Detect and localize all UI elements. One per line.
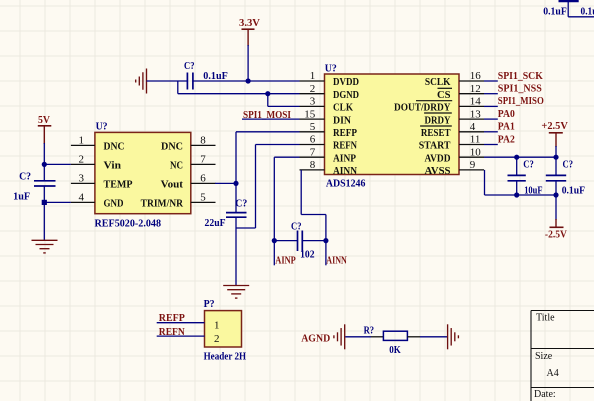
wire REFP to header pin 1 [157,322,205,324]
wire AINN vertical [301,170,326,265]
wire to DGND pin 2 [178,93,300,95]
pin 6 (REFN) of U? ADS1246 [300,134,358,152]
svg-text:R?: R? [364,324,375,336]
wire AINP vertical [274,157,299,265]
capacitor C? 22uF [226,183,247,285]
svg-text:2: 2 [214,333,220,345]
designator R? [364,324,375,336]
voltage reference U? REF5020 body [95,132,191,213]
value 102 [300,249,315,261]
wire SPI1_MOSI to DIN pin 15 [242,118,300,120]
junction Vout/REFP/22uF [233,181,238,186]
designator U? (REF5020) [96,121,108,133]
wire 5V to Vin [43,143,45,181]
overbar of DRDY in DOUT/DRDY [416,100,452,102]
svg-text:8: 8 [200,135,206,147]
svg-text:0K: 0K [389,344,401,356]
net label SPI1_MOSI [243,109,291,121]
svg-text:A4: A4 [547,368,559,379]
wire AVDD rail [484,156,556,158]
net label SPI1_MISO [498,95,544,107]
power port +2.5V [541,120,568,147]
op-amp/ADC U? ADS1246 body [325,74,460,175]
wire 1uF to ground [43,186,45,240]
pin 5 (TRIM/NR) of U? REF5020 [141,192,216,210]
svg-text:SPI1_MISO: SPI1_MISO [498,95,544,107]
wire pin to net PA0 [484,118,498,120]
value 1uF [13,191,30,203]
svg-text:AVDD: AVDD [425,152,451,164]
wire from top-right capacitor [568,2,594,17]
pin 16 (SCLK) of U? ADS1246 [425,70,484,88]
svg-text:6: 6 [310,134,316,146]
designator U? (ADS1246) [325,63,337,75]
designator C? (0.1uF right) [563,159,574,171]
svg-text:TRIM/NR: TRIM/NR [141,198,184,210]
ground (analog earth, left of C 0.1uF) [136,69,147,94]
ground (below 22uF) [223,286,249,299]
svg-text:C?: C? [291,221,302,233]
svg-text:+2.5V: +2.5V [541,120,568,132]
pin 1 (DVDD) of U? ADS1246 [300,70,360,88]
overbar of CS [438,87,453,89]
svg-text:CLK: CLK [333,102,353,114]
net label AINN [326,255,347,267]
capacitor C? 0.1uF (right) [546,157,566,195]
svg-text:7: 7 [310,146,316,158]
title block text Date [534,389,556,400]
junction 5V/Vin [42,162,47,167]
designator C? (10uF) [523,159,534,171]
title block text Title [536,313,555,324]
capacitor C? 1uF [34,181,56,186]
svg-text:Date:: Date: [534,389,556,400]
svg-text:RESET: RESET [421,127,451,139]
svg-text:11: 11 [470,134,481,146]
wire +2.5V to rail [555,146,557,157]
wire AVSS bottom rail [485,194,557,196]
part name REF5020-2.048 [95,217,162,229]
net label REFP (header) [159,312,185,324]
title block text Size [535,351,553,362]
wire REFN to header pin 2 [157,335,205,337]
junction 10uF/rail [514,192,519,197]
value 0.1uF (right) [562,184,586,196]
junction 0.1uF/rail [553,192,558,197]
junction at 3.3V/DVDD [246,78,251,83]
ground (below 1uF) [32,240,58,253]
svg-text:0.1uF: 0.1uF [203,70,228,82]
svg-text:AGND: AGND [301,333,330,345]
svg-text:DGND: DGND [333,89,359,101]
junction GND pin 4 (square) [42,200,47,205]
svg-text:10: 10 [470,146,482,158]
svg-text:2: 2 [310,83,316,95]
value label 0.1 (clipped at right edge) [581,6,594,18]
svg-text:C?: C? [184,60,195,72]
svg-text:1: 1 [310,70,316,82]
wire REFN to 22uF bottom [236,145,300,229]
svg-text:5V: 5V [38,114,50,126]
svg-text:U?: U? [96,121,108,133]
svg-text:ADS1246: ADS1246 [326,177,366,189]
svg-text:14: 14 [470,96,482,108]
junction AINN/102 [323,238,328,243]
svg-text:1: 1 [79,135,85,147]
svg-text:102: 102 [300,249,315,261]
wire pin to net SPI1_MISO [484,105,498,107]
junction on DGND wire [265,91,270,96]
svg-text:C?: C? [523,159,534,171]
junction AVDD/0.1uF [553,155,558,160]
pin 5 (REFP) of U? ADS1246 [300,121,358,139]
pin 8 (AINN) of U? ADS1246 [300,159,358,177]
svg-text:REF5020-2.048: REF5020-2.048 [95,217,162,229]
designator C? (top capacitor) [184,60,195,72]
wire DGND to CLK [268,94,300,107]
wire GND branch [44,201,71,203]
resistor R? body [383,331,407,340]
capacitor C? 0.1uF (3.3V decoupling) [187,73,193,90]
svg-text:SPI1_NSS: SPI1_NSS [498,83,542,95]
svg-text:13: 13 [470,108,482,120]
svg-text:AINN: AINN [333,165,357,177]
svg-text:PA1: PA1 [498,121,515,133]
power port 3.3V [239,17,260,46]
junction AINP/102 [272,238,277,243]
net label SPI1_SCK [498,70,543,82]
svg-text:DVDD: DVDD [333,76,359,88]
svg-text:Size: Size [535,351,553,362]
wire rail to -2.5V [555,195,557,220]
capacitor plate fragment (top right corner) [559,0,579,2]
wire Vin branch [44,163,71,165]
value 0K [389,344,401,356]
wire ground branch down [177,81,179,94]
pin 2 (DGND) of U? ADS1246 [300,83,360,101]
part name ADS1246 [326,177,366,189]
wire pin to net PA1 [484,131,498,133]
wire AVSS pin 9 down [484,170,486,195]
pin 10 (AVDD) of U? ADS1246 [425,146,485,164]
power port -2.5V [545,219,567,241]
svg-text:C?: C? [235,197,247,209]
wire pin to net PA2 [484,144,498,146]
net label PA1 [498,121,515,133]
svg-text:5: 5 [310,121,316,133]
svg-text:Vout: Vout [161,179,184,191]
svg-text:C?: C? [563,159,574,171]
svg-text:SCLK: SCLK [425,76,451,88]
svg-text:C?: C? [19,171,31,183]
pin 15 (DIN) of U? ADS1246 [300,108,352,126]
pin 1 of P? [214,319,220,331]
svg-text:DNC: DNC [161,141,183,153]
pin 2 (Vin) of U? REF5020 [71,154,121,172]
pin 7 (NC) of U? REF5020 [170,154,216,172]
wire pin to net SPI1_SCK [484,80,498,82]
overbar of DRDY [424,112,452,114]
pin 4 (GND) of U? REF5020 [71,192,124,210]
svg-text:3.3V: 3.3V [239,17,260,29]
capacitor C? 10uF [508,157,526,195]
pin 14 (DOUT/DRDY) of U? ADS1246 [394,96,484,114]
svg-text:4: 4 [470,121,476,133]
wire ground to capacitor [147,80,188,82]
svg-text:Vin: Vin [104,160,122,172]
svg-text:6: 6 [200,173,206,185]
svg-text:P?: P? [204,298,215,310]
ground AGND (left bars) [334,324,345,349]
svg-text:SPI1_SCK: SPI1_SCK [498,70,543,82]
junction AVDD/10uF [514,155,519,160]
value 0.1uF (top capacitor) [203,70,228,82]
designator C? (22uF) [235,197,247,209]
wire 3.3V to DVDD junction [247,45,249,81]
svg-text:15: 15 [304,108,316,120]
designator C? (102) [291,221,302,233]
svg-text:CS: CS [437,89,451,101]
svg-text:3: 3 [310,96,316,108]
svg-text:AINN: AINN [326,255,347,267]
wire pin to net SPI1_NSS [484,93,498,95]
svg-text:0.1uF: 0.1uF [543,6,567,18]
svg-text:3: 3 [79,173,85,185]
pin 1 (DNC) of U? REF5020 [71,135,125,153]
wire capacitor to DVDD pin 1 [193,80,300,82]
svg-text:2: 2 [79,154,85,166]
svg-text:7: 7 [200,154,206,166]
svg-text:PA0: PA0 [498,108,515,120]
pin 3 (TEMP) of U? REF5020 [71,173,133,191]
svg-text:TEMP: TEMP [104,179,133,191]
svg-text:0.1uF: 0.1uF [562,184,586,196]
net label PA0 [498,108,515,120]
ground (right of resistor) [448,324,459,349]
svg-text:9: 9 [470,159,476,171]
pin 3 (CLK) of U? ADS1246 [300,96,354,114]
value label 0.1uF (top right) [543,6,567,18]
pin 13 (DRDY) of U? ADS1246 [425,108,485,126]
svg-text:START: START [419,140,451,152]
net label AGND [301,333,330,345]
svg-text:PA2: PA2 [498,133,515,145]
pin 2 of P? [214,333,220,345]
svg-text:DIN: DIN [333,114,351,126]
svg-text:8: 8 [310,159,316,171]
net label REFN (header) [159,326,185,338]
pin 12 (CS) of U? ADS1246 [437,83,484,101]
pin 8 (DNC) of U? REF5020 [161,135,216,153]
svg-text:AVSS: AVSS [425,165,451,177]
svg-text:DNC: DNC [104,141,125,153]
pin 7 (AINP) of U? ADS1246 [300,146,357,164]
wire junction up to REFP [236,132,300,184]
pin 6 (Vout) of U? REF5020 [161,173,216,191]
overbar of RESET [420,125,452,127]
svg-text:AINP: AINP [333,152,356,164]
svg-text:-2.5V: -2.5V [545,229,567,241]
svg-text:Title: Title [536,313,555,324]
pin 4 (RESET) of U? ADS1246 [421,121,484,139]
svg-text:REFP: REFP [333,127,357,139]
value 10uF [524,184,543,196]
svg-text:1uF: 1uF [13,191,30,203]
svg-text:5: 5 [200,192,206,204]
net label SPI1_NSS [498,83,542,95]
svg-text:REFN: REFN [333,140,357,152]
svg-text:4: 4 [79,192,85,204]
connector P? body [205,311,242,347]
svg-text:AINP: AINP [275,255,296,267]
svg-text:NC: NC [170,160,183,172]
svg-text:U?: U? [325,63,337,75]
wire Vout to junction [215,182,236,184]
pin 9 (AVSS) of U? ADS1246 [425,159,485,177]
designator C? (1uF) [19,171,31,183]
svg-text:DRDY: DRDY [425,114,451,126]
svg-text:0.1u: 0.1u [581,6,594,18]
power port 5V [38,114,52,144]
capacitor C? 102 [274,231,326,252]
svg-text:Header 2H: Header 2H [204,350,247,362]
wire resistor to ground [407,336,447,338]
svg-text:GND: GND [104,198,124,210]
svg-text:DOUT/DRDY: DOUT/DRDY [394,102,451,114]
net label PA2 [498,133,515,145]
svg-text:22uF: 22uF [205,217,226,229]
designator P? (header) [204,298,215,310]
value 22uF [205,217,226,229]
part name Header 2H [204,350,247,362]
svg-text:1: 1 [214,319,220,331]
wire AGND to resistor [345,336,383,338]
title block text A4 [547,368,559,379]
svg-text:16: 16 [470,70,482,82]
pin 11 (START) of U? ADS1246 [419,134,484,152]
title block frame [531,311,594,401]
net label AINP [275,255,296,267]
svg-text:12: 12 [470,83,481,95]
